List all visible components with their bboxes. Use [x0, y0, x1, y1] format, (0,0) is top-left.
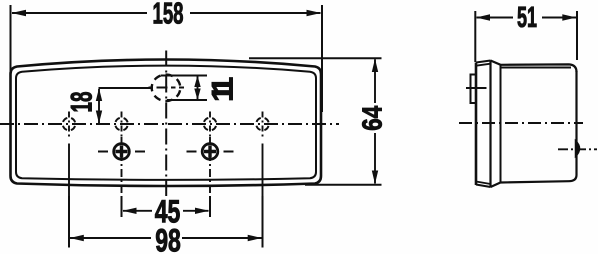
dimension 11 top reference line	[161, 75, 207, 77]
side view screw axis centerline	[558, 148, 597, 150]
svg-text:64: 64	[357, 106, 388, 131]
screw right cross	[204, 146, 216, 158]
dimension 158 arrow left	[12, 10, 27, 16]
dimension 98 arrow left	[70, 235, 84, 241]
side view tab cross line	[466, 87, 487, 89]
dimension 51 arrow right	[562, 14, 576, 20]
dimension 64 bottom extension line	[305, 184, 382, 186]
dimension 18 arrow up	[96, 88, 102, 101]
dimension 51 extension line left	[474, 11, 476, 62]
small hole B	[115, 112, 128, 137]
top hole cross line	[149, 87, 185, 89]
screw left ring	[114, 144, 130, 160]
side view lens bottom edge	[476, 185, 491, 188]
dimension 64 arrow down	[372, 171, 378, 185]
dimension 11 arrow up	[194, 76, 200, 88]
dimension 64 line	[374, 59, 376, 183]
dimension 51 extension line right	[576, 11, 578, 60]
dimension 45 extension line left	[121, 196, 123, 217]
dimension 45 extension line right	[209, 196, 211, 217]
dimension 158 extension line right	[321, 5, 323, 112]
dimension 45 line	[123, 210, 209, 212]
dimension 11 bottom reference line	[167, 99, 207, 101]
dimension 98 arrow right	[248, 235, 262, 241]
svg-text:1: 1	[207, 85, 240, 102]
svg-text:98: 98	[155, 222, 181, 254]
dimension 64 arrow up	[372, 59, 378, 72]
dimension 158 extension line left	[10, 5, 12, 80]
dimension 158 line	[12, 12, 321, 14]
dimension 158 arrow right	[307, 10, 322, 16]
svg-text:51: 51	[517, 2, 537, 34]
side view lens top inner edge	[476, 64, 491, 66]
dimension 51 line	[477, 17, 577, 19]
dimension 98 extension line left	[68, 196, 70, 248]
lamp front view outer outline	[11, 60, 322, 187]
side view screw bump on back face	[576, 141, 580, 157]
svg-text:18: 18	[65, 91, 99, 112]
side view housing front edge	[500, 65, 502, 183]
screw right axis line	[209, 137, 211, 196]
top hole dashed circle	[152, 75, 181, 101]
side view mounting tab	[471, 75, 477, 104]
side view housing back face	[575, 71, 577, 175]
dimension 11 line	[197, 76, 199, 100]
dimension 45 arrow left	[123, 208, 137, 214]
screw left cross	[116, 146, 128, 158]
dimension 18 arrow down	[96, 111, 102, 124]
dimension 18 line	[98, 89, 100, 123]
screw left side dashes	[98, 151, 145, 153]
small hole C	[204, 112, 217, 137]
small hole D	[256, 112, 269, 197]
dimension 98 extension line right	[262, 196, 264, 248]
dimension 45 arrow right	[195, 208, 209, 214]
screw right side dashes	[187, 151, 234, 153]
side view main centerline	[459, 122, 583, 124]
small hole A	[63, 112, 76, 197]
lamp front view inner outline	[16, 66, 316, 180]
side view lens back edge	[489, 61, 491, 188]
horizontal centerline	[0, 123, 339, 125]
screw left axis line	[121, 137, 123, 196]
dimension 98 line	[70, 237, 262, 239]
side view lens top edge	[476, 61, 491, 63]
svg-text:158: 158	[152, 0, 183, 31]
dimension 18 reference line	[99, 87, 153, 89]
dimension 11 arrow down	[194, 89, 200, 101]
dimension 51 arrow left	[476, 14, 490, 20]
side view housing bottom edge	[491, 175, 577, 187]
vertical centerline	[165, 51, 167, 197]
dimension 64 top extension line	[249, 57, 382, 59]
side view housing top inner line	[501, 67, 572, 69]
side view housing top edge	[491, 61, 577, 73]
side view lens front face	[475, 63, 478, 186]
side view lens bottom inner edge	[476, 182, 491, 185]
screw right ring	[202, 144, 218, 160]
